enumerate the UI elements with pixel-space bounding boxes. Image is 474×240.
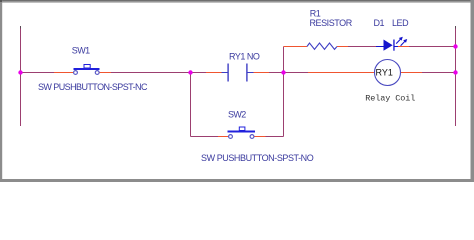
- junction dot left rail: [18, 70, 22, 74]
- wire right power rail: [455, 26, 457, 126]
- svg-text:D1: D1: [374, 18, 385, 28]
- svg-text:RESISTOR: RESISTOR: [310, 18, 353, 28]
- pin D1 right (red): [398, 46, 409, 48]
- svg-text:RY1: RY1: [376, 68, 393, 78]
- border frame right: [471, 0, 474, 182]
- svg-text:SW PUSHBUTTON-SPST-NO: SW PUSHBUTTON-SPST-NO: [201, 153, 314, 163]
- wire coil to right rail: [422, 72, 456, 74]
- wire SW1 to junction A: [111, 72, 206, 74]
- pin SW2 left (red): [218, 136, 229, 138]
- svg-text:R1: R1: [310, 9, 321, 19]
- lead D1 cathode (blue): [395, 46, 399, 48]
- wire junction B to coil pin: [284, 72, 309, 74]
- junction dot right rail top: [453, 44, 457, 48]
- junction dot A: [188, 70, 192, 74]
- wire left power rail: [20, 26, 22, 126]
- border frame top: [0, 0, 474, 1]
- svg-text:RY1 NO: RY1 NO: [229, 52, 260, 62]
- diode D1 LED: [384, 37, 408, 51]
- relay coil RY1: [375, 60, 401, 86]
- wire left rail top cap: [20, 26, 22, 29]
- wire SW2 row left segment: [191, 136, 219, 138]
- border frame bottom: [0, 179, 474, 182]
- pin R1 left (red): [284, 46, 308, 48]
- wire RY1-NO to junction B: [269, 72, 284, 74]
- svg-text:SW2: SW2: [228, 110, 246, 120]
- lead RY1-NO right (blue): [247, 72, 254, 74]
- wire SW2 row right segment: [266, 136, 284, 138]
- switch SW2 (pushbutton SPST-NO): [228, 127, 256, 138]
- pin SW2 right (red): [254, 136, 266, 138]
- wire D1 to right rail: [409, 46, 456, 48]
- svg-text:LED: LED: [392, 18, 409, 28]
- wire vertical branch at x=283 top row to SW2 row: [283, 47, 285, 137]
- relay contact RY1 NO: [227, 64, 247, 82]
- pin R1 right (red): [337, 46, 348, 48]
- svg-text:SW1: SW1: [72, 46, 90, 56]
- border corner top-left: [0, 0, 2, 2]
- svg-text:SW PUSHBUTTON-SPST-NC: SW PUSHBUTTON-SPST-NC: [38, 82, 148, 92]
- wire R1 to D1: [348, 46, 376, 48]
- border frame left: [0, 0, 2, 182]
- wire vertical branch at junction A down to SW2 row: [190, 73, 192, 137]
- pin RY1-NO left (red): [206, 72, 222, 74]
- lead RY1-NO left (blue): [222, 72, 228, 74]
- lead D1 anode (blue): [376, 46, 384, 48]
- pin RY1-NO right (red): [254, 72, 270, 74]
- wire right rail top cap: [455, 26, 457, 29]
- pin SW1 right (red): [100, 72, 112, 74]
- junction dot right rail main: [453, 70, 457, 74]
- switch SW1 (pushbutton SPST-NC): [74, 65, 100, 75]
- wire main row: left rail to SW1 pin: [21, 72, 55, 74]
- svg-text:Relay Coil: Relay Coil: [365, 93, 415, 103]
- pin SW1 left (red): [54, 72, 74, 74]
- pin RY1 coil right (red): [401, 72, 423, 74]
- resistor R1 zigzag: [307, 43, 337, 49]
- junction dot B: [281, 70, 285, 74]
- pin RY1 coil left (red): [308, 72, 375, 74]
